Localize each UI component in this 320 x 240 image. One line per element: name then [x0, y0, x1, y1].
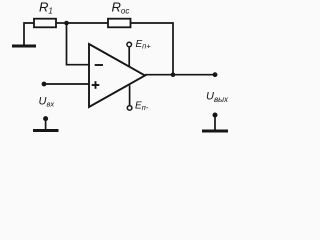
input terminal dot (Uvx)	[42, 82, 47, 87]
wire: Roc to output node (feedback down)	[131, 23, 174, 75]
op-amp U1	[89, 44, 145, 107]
wire: input terminal to non-inverting input	[44, 83, 89, 85]
wire: node A to Roc	[67, 22, 109, 24]
Ep+ supply terminal circle	[127, 42, 132, 47]
op-amp plus sign	[92, 81, 100, 89]
svg-text:Eп+: Eп+	[136, 39, 152, 51]
wire: op-amp bottom edge to Ep- terminal	[129, 85, 131, 105]
node A (summing junction dot)	[64, 21, 69, 26]
Ep- supply terminal circle	[127, 106, 132, 111]
wire: R1 to node A	[56, 22, 67, 24]
op-amp minus sign	[95, 64, 103, 66]
wire: R1 left terminal to ground stem	[24, 23, 34, 45]
wire: Ep+ terminal to op-amp top edge	[128, 47, 130, 67]
node B (output junction dot)	[171, 72, 176, 77]
resistor R1	[34, 19, 56, 28]
wire: op-amp output to node B	[145, 74, 173, 76]
wire: node A down to inverting input	[67, 23, 90, 65]
wire: node B to output terminal	[173, 74, 215, 76]
svg-text:Eп-: Eп-	[135, 101, 149, 113]
resistor Roc (feedback)	[108, 19, 131, 28]
output terminal dot (Uvyx)	[213, 72, 218, 77]
output common terminal (dot, stem, bar)	[202, 113, 228, 132]
input common terminal (dot, stem, bar)	[33, 116, 59, 130]
ground (left, input divider)	[12, 45, 36, 48]
